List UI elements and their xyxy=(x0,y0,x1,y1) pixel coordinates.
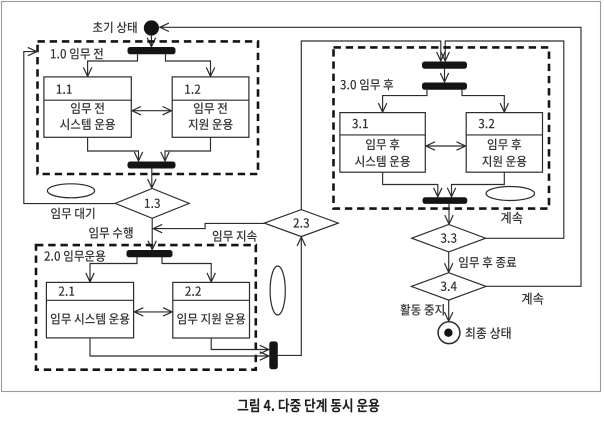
wire: sync between 2.1 and 2.2 xyxy=(135,311,172,313)
decision 3.4 xyxy=(411,273,486,300)
join bar J4 xyxy=(423,197,468,204)
wire: 3.1 to join bar J4 xyxy=(383,172,438,197)
wire: fork F2 to activity 2.2 xyxy=(162,257,211,282)
activity group 3.0 임무 후 xyxy=(334,47,550,208)
join bar J2 vertical xyxy=(269,341,278,369)
wire: fork F2 to activity 2.1 xyxy=(90,257,137,282)
activity 3.1 임무 후 시스템 운용 xyxy=(340,113,425,173)
wire: decision 3.3 to 3.4 임무 후 종료 xyxy=(448,252,450,272)
fork bar F3 xyxy=(422,83,467,90)
final state 최종 상태 xyxy=(438,322,460,344)
wire: fork F3 to activity 3.2 xyxy=(462,90,504,112)
activity 1.2 임무 전 지원 운용 xyxy=(172,77,249,137)
wire: fork F1 to activity 1.1 xyxy=(88,54,138,76)
wire: 1.1 to join bar J1 xyxy=(88,137,139,161)
wire: decision 3.4 계속 restart loop to initial state xyxy=(160,27,581,286)
wire: join J2 to decision 2.3 xyxy=(278,237,302,355)
fork bar F1 xyxy=(128,47,176,54)
caption 그림 4. 다중 단계 동시 운용 xyxy=(238,398,380,412)
wire: decision 1.3 to fork bar F2 xyxy=(151,218,153,249)
join bar J3 xyxy=(422,62,467,69)
wire: 3.2 to join bar J4 xyxy=(452,172,505,197)
fork bar F2 xyxy=(127,250,173,257)
activity 2.1 임무 시스템 운용 xyxy=(46,282,133,338)
wire: 1.2 to join bar J1 xyxy=(165,137,211,161)
wire: fork F3 to activity 3.1 xyxy=(383,90,427,112)
wait state ellipse left xyxy=(47,184,94,198)
wire: join J3 to fork bar F3 xyxy=(444,69,446,82)
wire: 2.2 to join bar J2 xyxy=(211,338,268,350)
activity group 2.0 임무운용 xyxy=(36,245,256,370)
busy state ellipse vertical xyxy=(270,266,285,315)
wire: sync between 1.1 and 1.2 xyxy=(132,110,171,112)
label 임무 수행 xyxy=(89,227,133,239)
wire: 2.1 to join bar J2 xyxy=(90,338,269,356)
activity 1.1 임무 전 시스템 운용 xyxy=(44,77,131,137)
wire: fork F1 to activity 1.2 xyxy=(166,54,211,76)
wire: initial state to fork bar F1 xyxy=(150,36,152,47)
wire: decision 1.3 loop 임무 대기 back into 1.0 xyxy=(24,52,115,204)
wire: decision 2.3 to join bar J3 of 3.0 xyxy=(301,41,441,210)
wire: join J1 to decision 1.3 xyxy=(151,169,153,188)
activity 3.2 임무 후 지원 운용 xyxy=(466,113,542,173)
wire: decision 3.4 활동 중지 to final state xyxy=(448,300,450,321)
wire: sync between 3.1 and 3.2 xyxy=(426,145,465,147)
activity group 1.0 임무 전 xyxy=(38,41,259,174)
decision 1.3 xyxy=(115,189,189,219)
wait state ellipse right xyxy=(486,187,534,201)
initial state 초기 상태 xyxy=(144,20,159,35)
activity 2.2 임무 지원 운용 xyxy=(173,282,250,338)
wire: decision 2.3 임무 지속 to mission flow xyxy=(153,223,264,228)
wire: decision 3.3 계속 loop to join J3 xyxy=(445,41,564,238)
wire: join J4 to decision 3.3 xyxy=(448,204,450,224)
join bar J1 xyxy=(128,162,176,169)
decision 2.3 xyxy=(264,210,338,237)
decision 3.3 xyxy=(412,225,486,252)
